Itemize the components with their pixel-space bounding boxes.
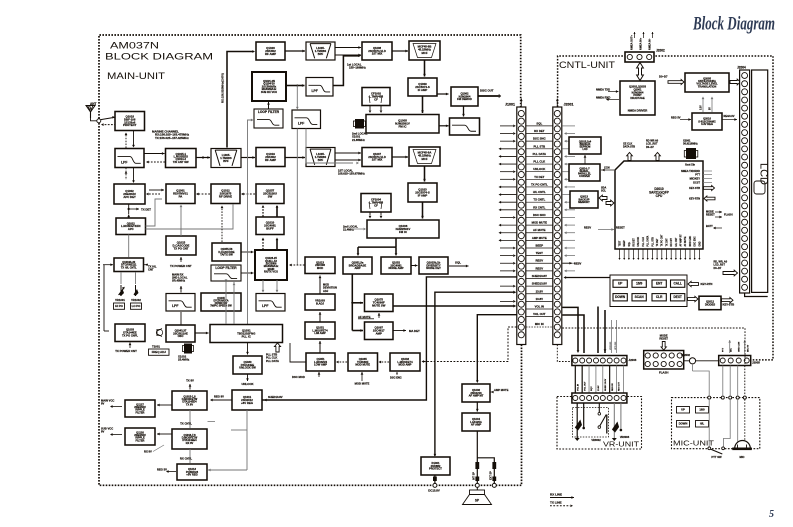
svg-text:AMP: AMP: [354, 266, 360, 270]
svg-text:MOD MUTE: MOD MUTE: [355, 382, 370, 386]
svg-text:FM IC: FM IC: [399, 230, 408, 234]
MIC-UNIT dashed enclosure: [672, 398, 760, 449]
svg-text:PLL DATA: PLL DATA: [647, 235, 650, 246]
svg-text:AM037N: AM037N: [110, 41, 159, 51]
svg-text:13.8V: 13.8V: [598, 385, 600, 391]
connector FLASH: [644, 351, 684, 370]
block LPF A sub local: [306, 78, 333, 97]
block FREQ ADJ: [149, 349, 170, 355]
wire OSC to PLL: [195, 332, 209, 334]
wire BPF sub to Q1008: [335, 47, 361, 49]
wire REG8V to TX8V: [212, 399, 232, 401]
svg-text:UPD DN: UPD DN: [615, 341, 617, 350]
inner dashed box around VR3002: [572, 408, 608, 438]
wires VCO to buffer: [262, 239, 264, 250]
svg-text:REG 5V: REG 5V: [612, 383, 614, 391]
svg-text:RIG OUT: RIG OUT: [619, 381, 621, 391]
block main RX/TX VCO: [255, 250, 287, 280]
block Q1097 amp: [365, 322, 394, 340]
nodes on MIC unit top edge: [708, 396, 711, 399]
LCD panel: [752, 70, 768, 292]
svg-text:PA: PA: [179, 195, 183, 199]
svg-text:RX LINE: RX LINE: [550, 492, 562, 496]
wire TX8V to ripple filter: [157, 404, 172, 406]
svg-text:TX DET: TX DET: [141, 208, 151, 212]
svg-text:DEXT: DEXT: [673, 295, 681, 299]
svg-text:155~169MHz: 155~169MHz: [349, 66, 366, 70]
svg-text:INT SP: INT SP: [472, 472, 475, 480]
svg-text:CNTL-UNIT: CNTL-UNIT: [559, 60, 616, 70]
svg-text:8V: 8V: [101, 430, 105, 434]
svg-text:MIC/KEY: MIC/KEY: [690, 177, 701, 180]
svg-text:PROTECT: PROTECT: [123, 123, 137, 127]
key 16/9: [632, 280, 646, 287]
wires VCO down to LPF3: [262, 280, 264, 292]
block VR1003 deviation adjust: [305, 294, 335, 310]
svg-text:RX 8V: RX 8V: [186, 441, 194, 445]
svg-text:T/R ANT SW: T/R ANT SW: [173, 160, 189, 164]
connector J3001 on VR unit: [572, 393, 627, 403]
svg-text:16/9: 16/9: [699, 408, 705, 412]
wire LPF1 to Q1015: [144, 153, 165, 155]
block LOOP FILTER main: [211, 265, 241, 281]
block TX H/L CNTL: [114, 258, 144, 272]
wires J2003 to VR connector: [575, 366, 623, 394]
svg-text:MIC-UNIT: MIC-UNIT: [673, 441, 715, 448]
potentiometer VR3002: [576, 403, 578, 438]
block Q1013 +5V REG: [177, 464, 207, 480]
svg-text:1ST MIX: 1ST MIX: [372, 52, 383, 56]
block Q1005 FM IF IC: [366, 115, 439, 134]
key DOWN: [613, 294, 627, 301]
block D2010 CPU: [615, 161, 703, 249]
svg-text:108.625~153.675MHz: 108.625~153.675MHz: [338, 172, 365, 176]
svg-text:+5V REG: +5V REG: [186, 473, 198, 477]
svg-text:CCN: CCN: [604, 166, 610, 170]
block Q1051 broadbase amp: [343, 257, 372, 274]
block BPF sub RX: [306, 42, 335, 60]
wire Q1057 to Q1012 dashed: [243, 193, 255, 195]
block LPF3: [256, 294, 285, 312]
svg-text:RX/TX VCO: RX/TX VCO: [264, 270, 278, 274]
svg-text:BUFF: BUFF: [266, 227, 274, 231]
arrow KEY-STB out of CPU: [704, 186, 715, 191]
wire VR1003 to MOD: [319, 276, 321, 294]
svg-text:RX 8V: RX 8V: [144, 450, 152, 454]
potentiometer VR1002: [135, 285, 137, 296]
svg-text:B.ADJ: B.ADJ: [316, 301, 325, 305]
wires Q1010 to Q1057: [262, 206, 264, 217]
svg-text:PLL CLK: PLL CLK: [643, 237, 645, 247]
crystal X1002: [184, 344, 192, 354]
svg-text:25.4MHz: 25.4MHz: [178, 358, 190, 362]
svg-text:TEST: TEST: [536, 251, 543, 255]
wire TX PO CNT up to PA: [180, 206, 182, 236]
stub arrows left of J1001: [499, 125, 517, 303]
svg-text:SHED13.8V: SHED13.8V: [268, 395, 283, 399]
block Q1018 antenna protect: [115, 112, 145, 131]
arrow KEY-RTN into CPU: [704, 196, 715, 201]
svg-text:CF: CF: [374, 97, 378, 101]
CPU bottom pin labels: [618, 234, 701, 260]
svg-text:LPF: LPF: [262, 304, 268, 308]
svg-text:MEMORY: MEMORY: [578, 200, 590, 204]
svg-text:D0~D7: D0~D7: [646, 146, 654, 149]
svg-text:PLL STB: PLL STB: [652, 237, 654, 247]
svg-text:PTT: PTT: [695, 173, 700, 176]
svg-text:TX PO CNT: TX PO CNT: [662, 234, 664, 247]
block Q1057 switch: [256, 184, 284, 204]
wire MCF sub down to Q1009: [424, 60, 426, 77]
svg-text:REG3.3V: REG3.3V: [724, 114, 735, 118]
terminal INT SP: [475, 483, 479, 487]
terminal DC13.8V: [434, 475, 436, 483]
svg-text:DOWN: DOWN: [679, 422, 688, 426]
crystal X1001 2nd local: [355, 119, 364, 129]
block Q1015-1 T/R ANT SW: [166, 149, 197, 168]
wire broadbase amp down to mute sw: [351, 274, 353, 331]
block Q1019 RF AMP: [256, 148, 285, 167]
svg-text:J2001: J2001: [564, 103, 574, 107]
block LPF TX: [166, 294, 195, 312]
svg-text:LPF: LPF: [121, 160, 127, 164]
svg-text:J2002: J2002: [656, 49, 665, 53]
wires inside MIC unit: [708, 399, 710, 447]
wire ant to Q1018 RX: [101, 117, 115, 119]
block NMEA DRIVER: [620, 81, 655, 115]
svg-text:16/9: 16/9: [636, 282, 642, 286]
svg-text:+8V REG: +8V REG: [241, 401, 254, 405]
wire Q1012 to Q1001 dashed: [198, 193, 210, 195]
svg-text:BATT: BATT: [706, 224, 713, 228]
svg-text:D0~D7: D0~D7: [659, 75, 668, 79]
svg-text:SQL: SQL: [455, 261, 461, 265]
svg-text:NOISE DET: NOISE DET: [426, 266, 441, 270]
block Q1001 TX PA: [166, 184, 195, 204]
wires level translation to REG: [702, 98, 704, 113]
svg-text:FM DEMOD: FM DEMOD: [457, 97, 472, 101]
svg-text:TX CNT: TX CNT: [666, 238, 668, 247]
svg-text:FILTER: FILTER: [136, 438, 145, 442]
svg-text:PROTECT: PROTECT: [429, 467, 442, 471]
wire APC to PA region: [146, 199, 163, 226]
svg-text:21.4MHz: 21.4MHz: [343, 228, 354, 232]
svg-text:VOL IN: VOL IN: [535, 305, 544, 309]
block LOOP FILTER sub: [254, 109, 283, 128]
svg-text:LOW AMP: LOW AMP: [314, 363, 327, 367]
connector J2003: [572, 356, 627, 366]
CPU top arrows: [627, 153, 633, 161]
wire Q1035 to Q1051: [338, 361, 347, 363]
wire PLL to unlock SW: [247, 343, 249, 355]
keypad enclosure: [610, 275, 687, 307]
PLL control arrows up: [274, 343, 280, 352]
svg-text:TP2002: TP2002: [681, 353, 691, 357]
block Q1007 1ST MIX: [362, 148, 392, 167]
svg-text:RESET: RESET: [616, 225, 625, 229]
block Q1003 TX PO CNFL: [115, 324, 145, 342]
arrow keypad to Q2012: [688, 296, 699, 301]
wire LPF A to Q1008 LO input: [333, 56, 359, 86]
wire LPF1 down to Q1002: [125, 168, 127, 181]
svg-text:AMP MUTE: AMP MUTE: [494, 388, 509, 392]
svg-text:3.3V REG: 3.3V REG: [701, 122, 713, 126]
svg-text:3.3V: 3.3V: [701, 105, 703, 110]
wire low amp to LIM AMP: [319, 341, 321, 353]
svg-text:MOD MUTE: MOD MUTE: [532, 221, 547, 225]
block Q1126 ripple filter: [125, 428, 155, 445]
block Q2016 3.3V REG: [692, 113, 722, 130]
switch PTT SW: [710, 449, 722, 454]
svg-text:LCD: LCD: [757, 163, 769, 185]
svg-text:MIC 8V: MIC 8V: [748, 344, 750, 352]
svg-text:REG 5V: REG 5V: [671, 116, 681, 120]
block Q1006 FM IF IC main: [367, 220, 439, 238]
wires CF1004 to FM IC2: [369, 212, 371, 216]
svg-text:LPF: LPF: [298, 121, 304, 125]
svg-text:PLL IC: PLL IC: [242, 334, 252, 338]
svg-text:LCD: LCD: [582, 148, 587, 151]
svg-text:GND CON: GND CON: [739, 341, 741, 352]
switch on VR3002: [598, 413, 601, 416]
key CLR: [652, 294, 666, 301]
svg-text:VR3003: VR3003: [620, 435, 630, 439]
svg-text:SQC: SQC: [591, 386, 593, 391]
block TX/RX SW: [212, 243, 241, 261]
svg-text:IF AMP: IF AMP: [418, 193, 428, 197]
svg-text:13.8V: 13.8V: [536, 289, 543, 293]
svg-text:1ST MIX: 1ST MIX: [372, 158, 383, 162]
svg-text:UP: UP: [681, 408, 685, 412]
svg-text:NMEA TXD: NMEA TXD: [596, 87, 610, 91]
wire FM IC to demod: [438, 93, 449, 95]
svg-text:AMP: AMP: [376, 332, 382, 336]
svg-text:NMEA IN-: NMEA IN-: [648, 38, 651, 50]
block Q1012 RF DRIVE: [211, 184, 240, 204]
crystal X2001: [686, 148, 696, 159]
svg-text:H/L: H/L: [700, 422, 705, 426]
wire Q1052 to noise det: [411, 265, 418, 267]
svg-text:TX DET: TX DET: [657, 238, 659, 247]
wire sub VCO to LPF A: [286, 85, 297, 87]
svg-text:VR1001: VR1001: [115, 298, 125, 302]
svg-text:Xout Xin: Xout Xin: [685, 164, 696, 167]
svg-text:TX PO CNT: TX PO CNT: [173, 246, 188, 250]
block Q1075 mute switch: [365, 294, 394, 312]
key CALL: [671, 280, 685, 287]
svg-text:DCST: DCST: [693, 181, 700, 184]
dashed wire MOD to main VCO: [291, 264, 305, 266]
wire Q1020 to BPF sub: [285, 50, 305, 52]
svg-text:MOD MUTE: MOD MUTE: [355, 363, 370, 367]
label LO PO: [131, 303, 142, 309]
svg-text:DATA STB: DATA STB: [623, 146, 635, 149]
label SHED13.8V from J1001: [262, 277, 517, 400]
svg-text:VR1002: VR1002: [131, 298, 141, 302]
wire to LPF B down (gray): [296, 85, 298, 87]
svg-text:MA DET: MA DET: [409, 329, 420, 333]
wire Q1033 to Q1035: [380, 361, 389, 363]
block BPF2 main RX: [306, 148, 335, 167]
svg-text:TEST: TEST: [619, 240, 621, 246]
svg-text:D0~D7: D0~D7: [714, 267, 722, 270]
svg-text:RESV: RESV: [535, 259, 543, 263]
svg-text:RX DET: RX DET: [534, 129, 545, 133]
wire T/R SW up to Q1020 (RX 156.525 CH70): [227, 52, 253, 148]
wire Q1008 to MCF sub: [392, 50, 408, 52]
svg-text:DISC OUT: DISC OUT: [480, 89, 494, 93]
wire Q1007 to MCF: [392, 156, 408, 158]
svg-text:PTT SW: PTT SW: [711, 455, 722, 459]
wire Q1009 down to FM IC: [422, 96, 424, 113]
svg-text:BPF: BPF: [223, 159, 229, 163]
wire keypad to J2001: [565, 277, 610, 279]
svg-text:13.8V: 13.8V: [536, 297, 543, 301]
svg-text:EXT SP: EXT SP: [489, 471, 492, 480]
svg-text:TX PO CNTL: TX PO CNTL: [531, 182, 548, 186]
svg-text:MIC: MIC: [731, 348, 733, 352]
svg-text:DIODES: DIODES: [705, 302, 716, 306]
svg-text:T1001: T1001: [152, 345, 160, 349]
label UNLOCK below: [247, 374, 249, 381]
wire LPF TX up: [180, 286, 182, 293]
svg-text:TX:156.025~157.425MHz: TX:156.025~157.425MHz: [155, 136, 189, 140]
svg-text:CNT: CNT: [148, 267, 154, 271]
connector J2005: [719, 356, 751, 366]
svg-text:DSC SNC: DSC SNC: [533, 213, 546, 217]
svg-text:TX POWER CNT: TX POWER CNT: [115, 349, 137, 353]
svg-text:H/L CNT: H/L CNT: [676, 237, 678, 246]
svg-text:KEY-RTN: KEY-RTN: [689, 197, 700, 200]
svg-text:AF AMP: AF AMP: [471, 423, 481, 427]
block Q1023 IF AMP main: [408, 183, 437, 202]
key DOWN mic: [677, 421, 690, 428]
wire Q1019 to BPF2: [285, 157, 305, 159]
key UP mic: [677, 407, 690, 414]
wire MCF main down to Q1023: [424, 166, 426, 182]
svg-text:SR.45MHz: SR.45MHz: [172, 279, 186, 283]
svg-text:CPU: CPU: [656, 194, 663, 198]
CNTL-UNIT dashed enclosure: [558, 56, 773, 360]
wire FM IC2 down to noise amps: [395, 238, 397, 247]
svg-text:APC: APC: [128, 227, 134, 231]
block tuned BPF main RX: [211, 149, 241, 168]
wire VOL OUT down to AF AMP MT: [477, 315, 516, 382]
svg-text:NOISE AMP: NOISE AMP: [388, 266, 403, 270]
wire Q1015 to BPF: [196, 157, 210, 159]
svg-text:TX LINE: TX LINE: [550, 501, 562, 505]
wire Q1023 down to FM IC2: [422, 202, 424, 219]
block SUB RX VCO: [252, 72, 286, 101]
svg-text:GND: GND: [699, 241, 701, 246]
block Q1015 TX PO CNT: [166, 236, 196, 255]
svg-text:5V: 5V: [710, 107, 712, 110]
wire BPF2 to Q1007: [335, 152, 361, 154]
svg-text:AF AMP RT: AF AMP RT: [680, 234, 683, 247]
stub arrows above connectors: [520, 99, 522, 107]
wire Q2015 to Q2014: [584, 155, 586, 164]
svg-text:CONVER: CONVER: [579, 175, 590, 178]
svg-text:DOWN: DOWN: [615, 295, 626, 299]
svg-text:SQL: SQL: [536, 121, 542, 125]
svg-text:TX 8V: TX 8V: [186, 379, 194, 383]
svg-text:DSC ENC: DSC ENC: [390, 376, 402, 380]
key SCAN: [632, 294, 646, 301]
block Q1033 MOD AMP: [390, 353, 420, 371]
svg-text:J2003: J2003: [629, 358, 637, 362]
svg-text:VOL IN: VOL IN: [578, 383, 580, 391]
svg-text:CLR: CLR: [656, 295, 663, 299]
block Q1020 RF AMP sub: [256, 42, 285, 60]
signal labels between J1001 and J2001: [526, 121, 553, 327]
svg-text:ENT: ENT: [656, 282, 662, 286]
svg-text:VR3G02: VR3G02: [610, 341, 612, 350]
svg-text:BEEP: BEEP: [535, 243, 543, 247]
svg-text:FM IC: FM IC: [399, 125, 408, 129]
svg-text:TX 8V: TX 8V: [186, 402, 193, 406]
block Q2014 serial-parallel: [569, 164, 600, 181]
block 455 LPF after demod: [450, 118, 480, 135]
block Q1015-1 TX 8V regulator: [172, 391, 207, 410]
svg-text:MOD: MOD: [317, 266, 323, 270]
wires loop filter to VCO: [242, 251, 254, 253]
svg-text:SCAN: SCAN: [635, 295, 645, 299]
svg-text:PLL STB: PLL STB: [533, 144, 545, 148]
wire Q1018 to ant TX (dashed): [104, 124, 116, 126]
wires VR to H/L CNTL: [120, 272, 122, 284]
wire Q1051 to PLL mod input: [290, 343, 306, 362]
speaker SP: [476, 487, 478, 490]
svg-text:AF MUTE: AF MUTE: [533, 228, 546, 232]
svg-text:NMEA IN+: NMEA IN+: [639, 37, 642, 50]
svg-text:VR3002: VR3002: [591, 438, 601, 442]
microphone MIC: [735, 441, 751, 449]
svg-text:DC13.8V: DC13.8V: [428, 489, 440, 493]
svg-text:H/L CNTL: H/L CNTL: [533, 190, 546, 194]
svg-text:NMEA DRIVER: NMEA DRIVER: [628, 109, 648, 113]
svg-text:RESV: RESV: [574, 262, 582, 266]
dashed MIC line J2001 to MIC unit: [562, 328, 745, 364]
svg-text:APC DET: APC DET: [123, 195, 136, 199]
svg-text:KEY-STB: KEY-STB: [723, 303, 735, 307]
label MA DET: [393, 330, 406, 332]
svg-text:7M/PC SPEED SW: 7M/PC SPEED SW: [210, 305, 232, 308]
wires into MIC unit: [692, 364, 694, 371]
node TX DET: [128, 204, 130, 214]
svg-text:TX PO CNFL: TX PO CNFL: [122, 333, 138, 337]
block Q1011 +8V REG: [232, 390, 262, 410]
block Q1127 ripple filter: [125, 400, 155, 417]
svg-text:KEY-RTN: KEY-RTN: [701, 282, 713, 286]
key 16/9 mic: [696, 407, 709, 414]
svg-text:LOOP FILTER: LOOP FILTER: [258, 110, 280, 114]
svg-text:AF MUTE: AF MUTE: [684, 236, 687, 246]
svg-text:UNLOCK: UNLOCK: [638, 237, 640, 247]
wire BF drive to TX/RX SW: [221, 207, 223, 242]
svg-text:PLL CLK: PLL CLK: [533, 160, 545, 164]
svg-text:BPF: BPF: [318, 52, 324, 56]
block Q1051 low amp: [306, 353, 335, 371]
terminal EXT SP: [492, 483, 496, 487]
svg-text:TX H/L CNTL: TX H/L CNTL: [121, 265, 137, 269]
svg-text:SW: SW: [268, 195, 273, 199]
svg-text:RF AMP: RF AMP: [265, 52, 276, 56]
block Q2013 backup memory: [570, 191, 598, 208]
wires regulators vertical: [189, 410, 191, 429]
svg-text:Block Diagram: Block Diagram: [692, 14, 775, 35]
svg-text:CF: CF: [374, 204, 378, 208]
block Q1035 MOD MUTE: [348, 353, 378, 371]
